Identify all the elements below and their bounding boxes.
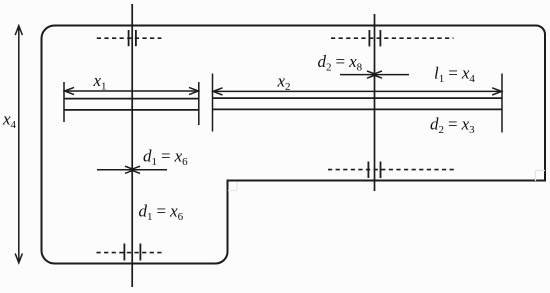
dimension x2 arrow bbox=[213, 88, 502, 95]
dimension x4 vertical arrow bbox=[15, 26, 22, 263]
bearing centerline top-right bbox=[331, 30, 454, 46]
svg-text:d1=x6: d1=x6 bbox=[139, 202, 184, 224]
bearing centerline mid-right bbox=[328, 162, 457, 179]
shaft 1 body lines bbox=[64, 99, 199, 110]
extension lines x2 bbox=[213, 74, 503, 133]
shaft 2 body lines bbox=[213, 98, 503, 109]
faint corner notch step bbox=[228, 182, 237, 191]
centerline shaft 2 bbox=[374, 14, 376, 191]
dimension d2=x8 converging arrows bbox=[340, 71, 409, 78]
bearing centerline bottom-left bbox=[97, 244, 164, 261]
extension lines x1 bbox=[64, 82, 199, 125]
dimension x1 arrow bbox=[65, 87, 199, 94]
dimension d1=x6 converging arrows bbox=[97, 166, 167, 173]
svg-text:d2=x3: d2=x3 bbox=[430, 115, 475, 137]
centerline shaft 1 bbox=[131, 4, 133, 287]
plate outline (L-shaped housing) bbox=[42, 26, 546, 264]
svg-text:d2=x8: d2=x8 bbox=[318, 52, 363, 74]
svg-text:d1=x6: d1=x6 bbox=[143, 147, 188, 169]
faint corner notch right bbox=[536, 171, 546, 182]
bearing centerline top-left bbox=[97, 30, 162, 46]
